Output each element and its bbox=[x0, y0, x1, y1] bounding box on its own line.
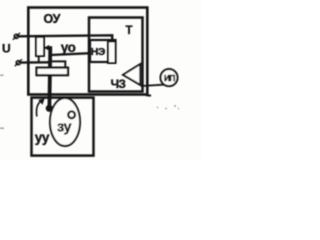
wire short right of bar bbox=[52, 61, 65, 68]
resistor UO rheostat bbox=[36, 37, 44, 56]
wire corner tick bottom right bbox=[146, 94, 151, 96]
sensor CZ triangle bbox=[123, 64, 140, 85]
box OU (controlled object) bbox=[28, 8, 147, 95]
terminal upper bbox=[13, 33, 20, 40]
svg-text:Т: Т bbox=[126, 25, 133, 37]
wiper arrow of rheostat bbox=[44, 45, 51, 51]
box T (thermostat) bbox=[89, 18, 143, 92]
rotation arrow bbox=[36, 98, 44, 116]
svg-text:зу: зу bbox=[57, 120, 71, 136]
wire top supply to heater bbox=[18, 35, 113, 42]
cam ZU ellipse bbox=[50, 98, 80, 146]
box UU (control unit) bbox=[32, 98, 94, 156]
junction dot bbox=[46, 105, 53, 112]
meter IP circle bbox=[161, 69, 178, 86]
resistor NE heating element bbox=[108, 42, 116, 64]
mechanical link bar bbox=[48, 46, 53, 107]
svg-text:ОУ: ОУ bbox=[44, 12, 61, 26]
wire rheostat bottom stub bbox=[38, 56, 40, 63]
box NE (heater unit) bbox=[90, 40, 116, 62]
wire lower terminal to bar bbox=[20, 61, 49, 64]
svg-text:U: U bbox=[2, 41, 11, 55]
svg-text:ИП: ИП bbox=[164, 73, 175, 83]
terminal lower bbox=[15, 59, 22, 66]
svg-text:ЧЗ: ЧЗ bbox=[111, 77, 126, 91]
paper background bbox=[0, 0, 201, 160]
wire sensor to meter bbox=[141, 85, 164, 86]
svg-text:уу: уу bbox=[35, 130, 50, 145]
noise specks bbox=[0, 75, 179, 129]
ring marker on cam bbox=[68, 111, 75, 118]
slider plate bbox=[37, 68, 69, 76]
svg-text:НЭ: НЭ bbox=[91, 46, 106, 58]
wire wiper to NE box bbox=[51, 53, 91, 55]
